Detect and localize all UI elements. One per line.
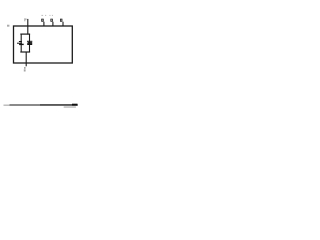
footer rule right end cap [72, 104, 78, 106]
pin 3 tiny note [49, 15, 53, 16]
pin 4 stub [62, 22, 64, 26]
pin 3 name glyph [50, 19, 52, 22]
pin 2 tiny note [41, 15, 46, 16]
pin 2 stub [43, 22, 45, 26]
IC outline U1 [14, 26, 73, 63]
diode D1 (left device) [17, 41, 24, 45]
footer left text [4, 105, 10, 106]
wire: bottom join rail [20, 51, 30, 53]
footer right text [64, 106, 76, 107]
wire: left branch [20, 34, 22, 52]
footer rule darker right part [40, 104, 78, 105]
pin 1 label P [24, 18, 26, 21]
diode D2 (right device) [27, 41, 32, 45]
node label a (left of box) [7, 25, 9, 27]
wire: right branch [29, 34, 31, 52]
pin 4 name glyph [60, 19, 62, 22]
wire: sub-circuit top rail [20, 33, 30, 35]
pin 3 stub [52, 22, 54, 26]
footer rule [10, 104, 78, 105]
pin 5 label [24, 67, 26, 72]
pin 1 wire [27, 19, 29, 35]
pin 2 name glyph [41, 19, 44, 22]
pin 5 wire (bottom, exits box) [25, 52, 27, 66]
